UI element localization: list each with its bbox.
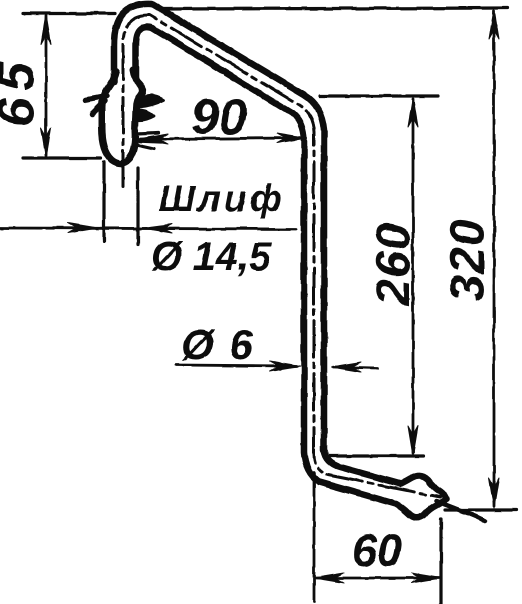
top break (grip) outline [102, 70, 143, 163]
dim 90 line [140, 138, 306, 139]
dim 60 left extension line [313, 472, 316, 602]
dim 320 bottom extension line [445, 508, 516, 511]
dim 260 bottom extension line [329, 454, 424, 457]
dia 6 leader line [176, 365, 296, 366]
dim 60 line [316, 577, 439, 580]
dim 90 arrow right [277, 133, 307, 143]
dia 14.5 arrow left-pointing [142, 224, 172, 233]
dim 260 line [412, 99, 415, 453]
svg-text:260: 260 [368, 222, 421, 306]
dim 65 top extension line [23, 12, 115, 15]
dim 60 arrow left [314, 573, 344, 583]
dim 260 arrow down [408, 426, 418, 456]
rod outer-top edge [114, 4, 446, 499]
dim 320 arrow up [489, 9, 499, 39]
dim 90 arrow left [138, 134, 168, 144]
svg-text:320: 320 [442, 218, 495, 301]
svg-text:60: 60 [352, 525, 402, 576]
svg-text:90: 90 [191, 89, 247, 145]
top break right spike lower [137, 110, 154, 120]
rod inner-bottom edge [136, 27, 445, 518]
dim 65 bottom extension line [23, 156, 101, 159]
top break left spike [86, 96, 107, 114]
dim 65 arrow up [41, 14, 51, 44]
top break right spike upper [139, 96, 164, 107]
dia 6 arrow left-pointing [331, 362, 361, 372]
dia 14.5 left extension line [102, 162, 105, 241]
dia 6 arrow right-pointing [270, 361, 300, 371]
dim 320 line [493, 11, 496, 506]
rod tail beyond bottom break [436, 501, 485, 521]
top break right prongs [136, 133, 161, 149]
dim 60 right extension line [439, 519, 442, 604]
dia 14.5 right extension line [136, 168, 139, 244]
dia 14.5 dimension line [0, 228, 296, 229]
dia 6 right arrow tail [333, 367, 378, 368]
svg-text:Шлиф: Шлиф [159, 178, 286, 219]
dim 320 top extension line [160, 8, 508, 9]
dim 65 line [45, 16, 48, 156]
dim 60 arrow right [411, 573, 441, 583]
svg-text:65: 65 [0, 55, 46, 127]
dim 260 top extension line [319, 94, 438, 97]
svg-text:Ø 6: Ø 6 [181, 321, 255, 368]
dim 65 arrow down [41, 128, 51, 158]
dim 320 arrow down [489, 478, 499, 508]
dim 260 arrow up [408, 97, 418, 127]
dia 14.5 arrow right-pointing [68, 223, 98, 233]
svg-text:Ø 14,5: Ø 14,5 [151, 235, 272, 279]
rod center axis line [123, 15, 440, 497]
